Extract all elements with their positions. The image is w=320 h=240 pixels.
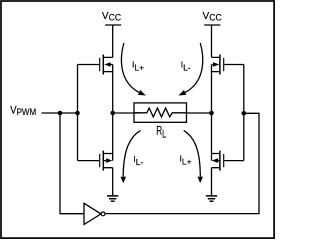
power VCC left rail symbol — [105, 24, 121, 26]
svg-text:IL+: IL+ — [132, 60, 144, 73]
wire VCC left to top-left transistor drain — [112, 25, 114, 57]
wire VPWM to inverter input — [60, 113, 84, 214]
transistor top-left — [78, 55, 113, 75]
wire left resistor lead — [113, 112, 140, 114]
node junction left gate bus — [75, 111, 80, 116]
power VCC right rail symbol — [204, 24, 220, 26]
svg-text:VPWM: VPWM — [10, 105, 36, 117]
transistor bottom-left — [78, 151, 113, 171]
node junction right gate bus — [242, 111, 247, 116]
wire bottom-right source to ground — [211, 168, 213, 196]
svg-text:VCC: VCC — [102, 11, 121, 22]
node junction VPWM branch — [58, 111, 63, 116]
load resistor RL — [134, 103, 187, 122]
current arrow IL- bottom-left — [121, 130, 141, 183]
ground left — [107, 196, 118, 201]
wire inverter output to right gate bus — [105, 113, 259, 213]
node junction right output — [209, 111, 214, 116]
svg-text:IL-: IL- — [133, 154, 143, 167]
wire left gate bus — [77, 65, 79, 161]
wire bottom-left source to ground — [112, 168, 114, 196]
wire left output node vertical — [112, 72, 114, 154]
svg-text:RL: RL — [156, 125, 166, 139]
wire right gate bus — [243, 65, 245, 161]
current arrow IL+ top-left — [121, 43, 145, 96]
svg-text:VCC: VCC — [203, 11, 222, 22]
wire VCC right to top-right transistor drain — [211, 25, 213, 57]
transistor bottom-right — [212, 151, 244, 171]
inverter U1 — [84, 203, 105, 224]
node junction left output — [110, 111, 115, 116]
svg-text:IL+: IL+ — [180, 153, 192, 166]
wire right output node vertical — [211, 72, 213, 154]
transistor top-right — [212, 55, 244, 75]
current arrow IL+ bottom-right — [184, 130, 203, 183]
wire VPWM input — [42, 112, 78, 114]
wire right resistor lead — [187, 112, 212, 114]
ground right — [206, 196, 217, 201]
current arrow IL- top-right — [178, 43, 202, 96]
svg-text:IL-: IL- — [181, 60, 191, 73]
